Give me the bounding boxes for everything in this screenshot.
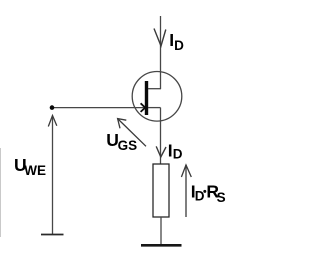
voltage arrow ID*RS (pointing up, right of resistor) <box>181 165 191 217</box>
wire: gate lead from node to transistor <box>52 107 145 109</box>
resistor RS <box>153 164 169 217</box>
wire: drain lead from top <box>160 16 162 89</box>
voltage arrow UGS (diagonal, pointing up-left) <box>118 119 146 147</box>
svg-text:D: D <box>173 147 183 162</box>
svg-text:GS: GS <box>118 138 138 153</box>
label ID (below transistor) <box>168 141 183 162</box>
label UGS <box>106 130 137 153</box>
wire: left input line <box>52 116 54 235</box>
transistor Q1 gate arrowhead <box>141 103 146 112</box>
wire: drain stub inside transistor <box>148 88 161 90</box>
wire: resistor to ground <box>160 217 162 245</box>
wire: source lead down to resistor <box>160 108 162 164</box>
wire: source stub inside transistor <box>148 107 161 109</box>
svg-text:D: D <box>195 189 205 204</box>
transistor Q1 channel bar <box>145 81 148 115</box>
label UWE <box>14 155 46 178</box>
current arrow ID (top, pointing down) <box>154 29 166 47</box>
node: gate input junction dot <box>50 105 55 110</box>
svg-text:WE: WE <box>24 163 46 178</box>
label ID (top) <box>169 30 184 53</box>
svg-text:D: D <box>174 38 184 53</box>
current arrow ID (below transistor, pointing down) <box>156 146 166 157</box>
ground <box>141 244 182 247</box>
label ID*RS <box>191 182 226 205</box>
svg-text:S: S <box>217 190 226 205</box>
voltage arrow UWE (pointing up at node) <box>48 116 57 127</box>
transistor Q1 (n-channel JFET) circle <box>132 72 182 122</box>
terminal bar (bottom of input line) <box>41 234 64 236</box>
